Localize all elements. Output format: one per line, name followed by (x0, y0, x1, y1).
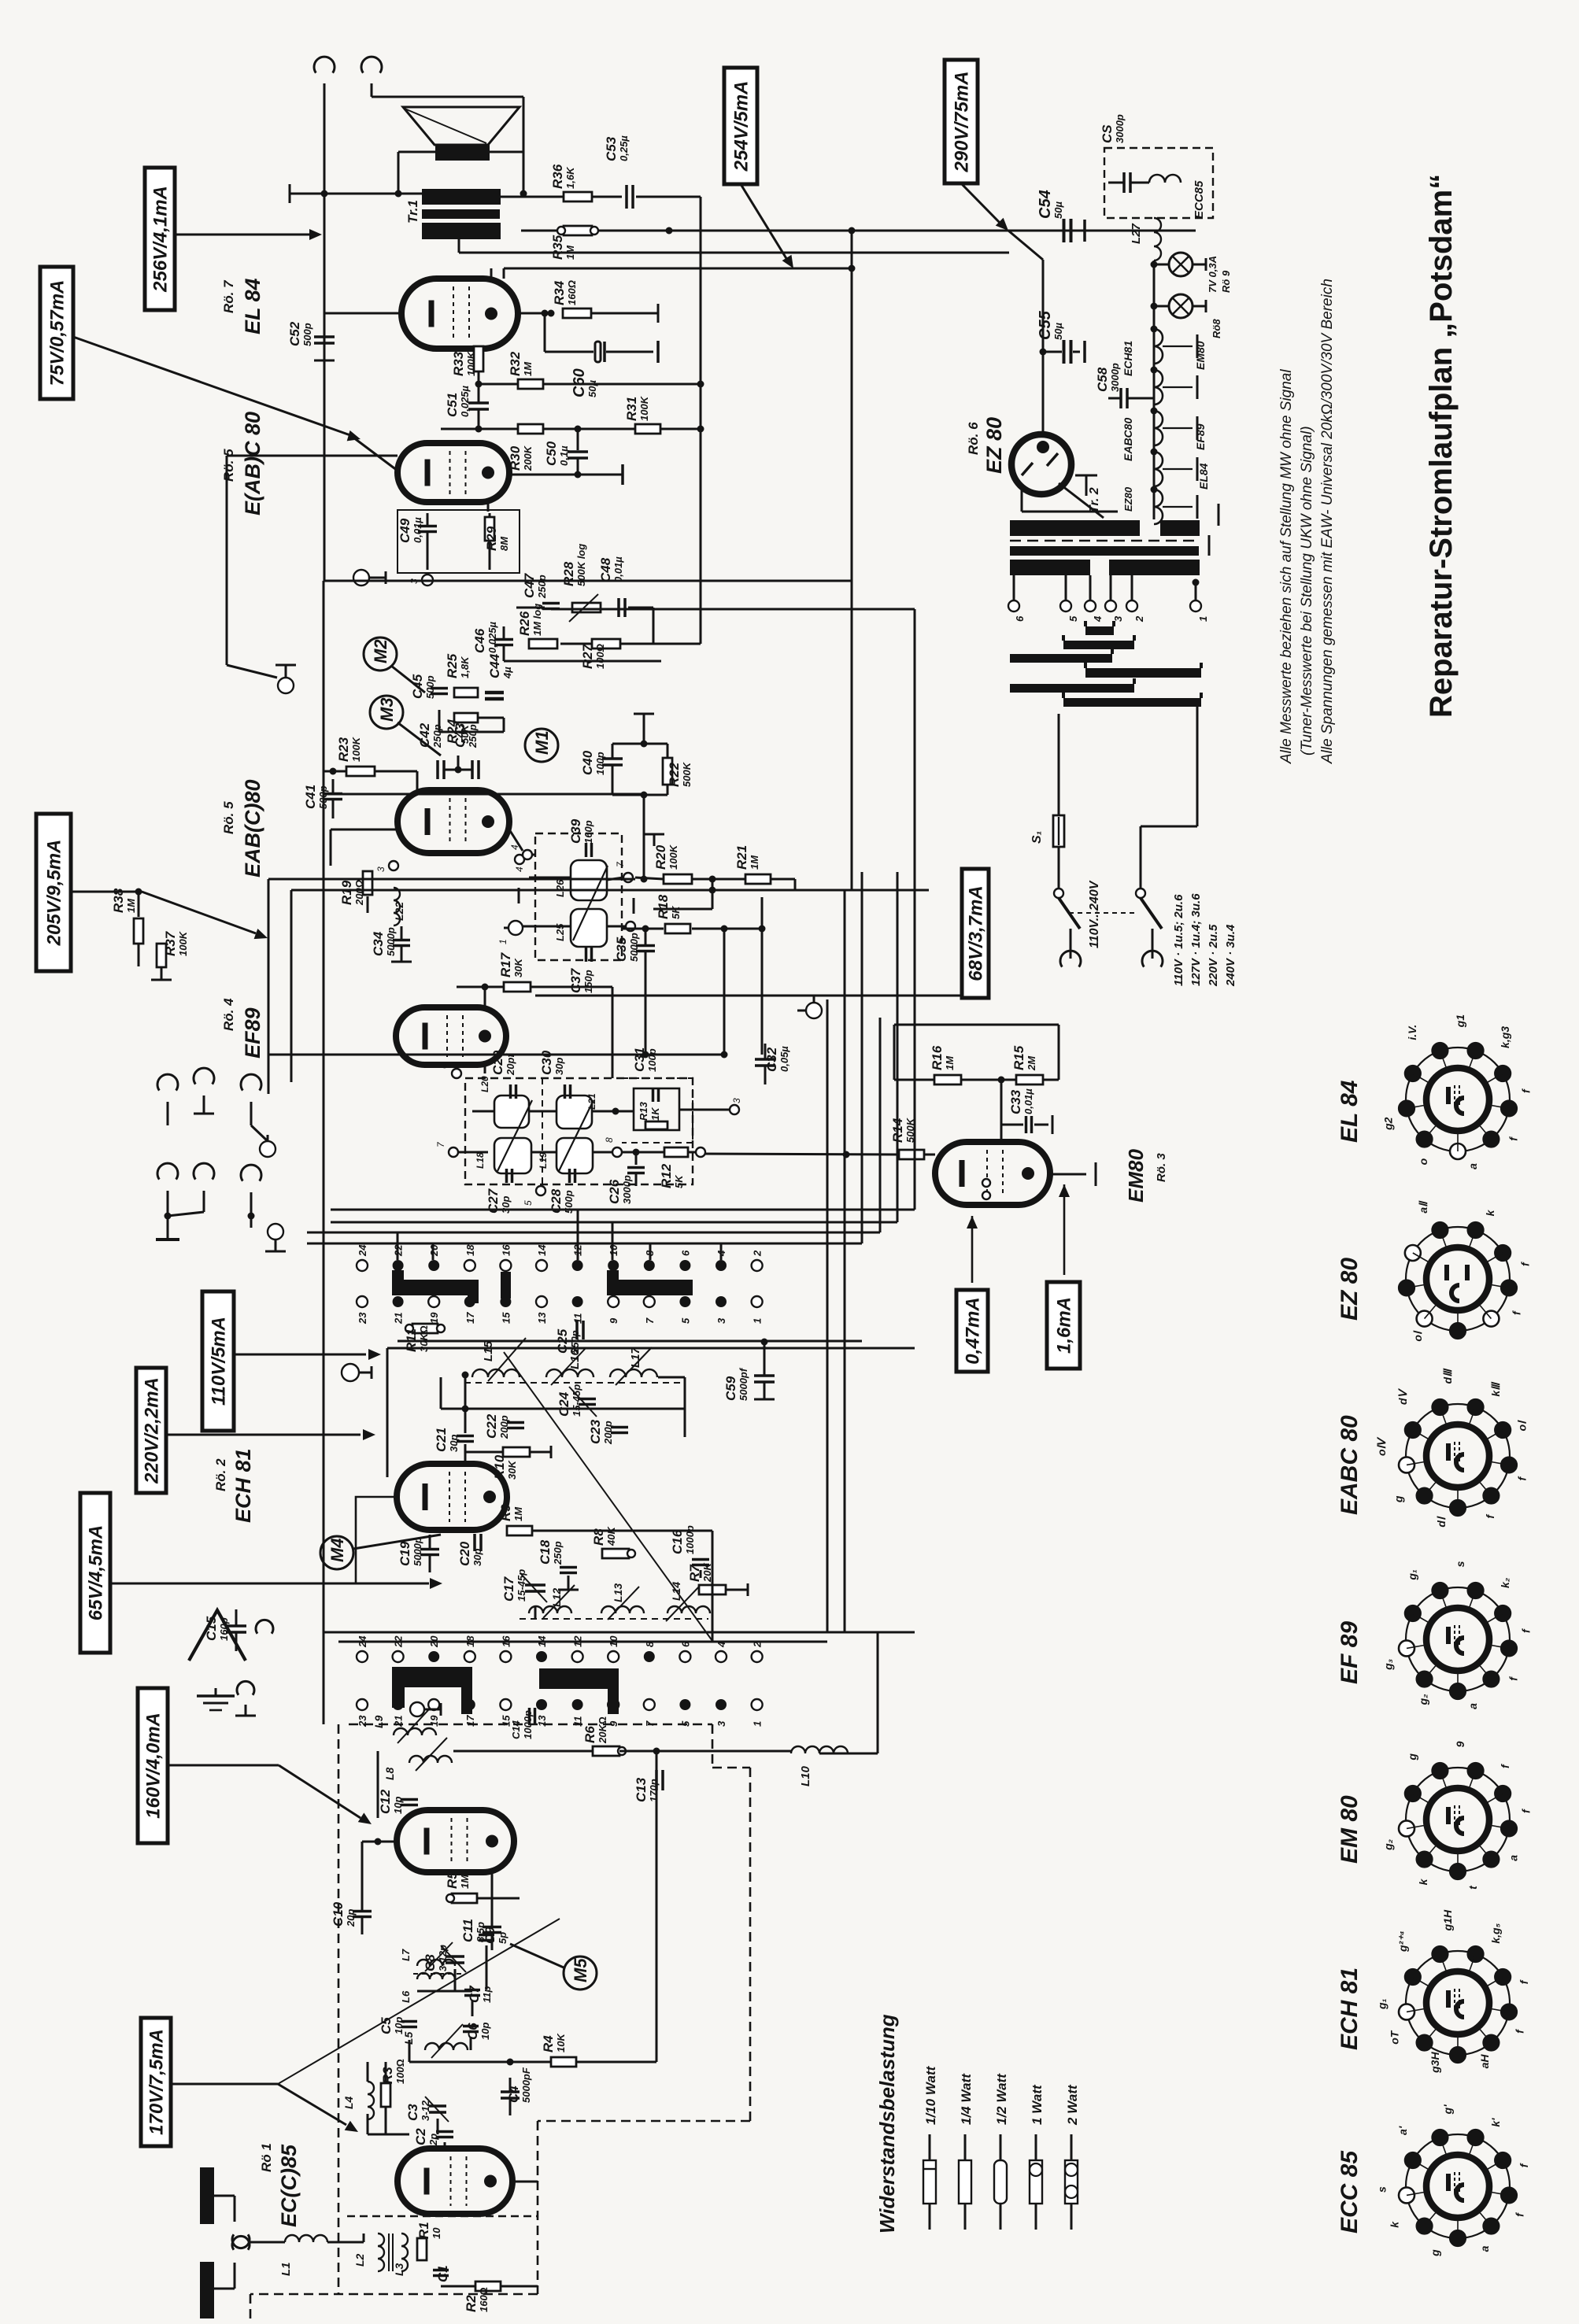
svg-text:1: 1 (1197, 616, 1209, 622)
resistor R2 (475, 2282, 501, 2291)
coil L8 (409, 1756, 452, 1763)
voltage box 170V (141, 2018, 171, 2146)
wire (490, 151, 523, 153)
capacitor C16 (692, 1558, 709, 1561)
svg-text:oⅠ: oⅠ (1515, 1420, 1528, 1432)
svg-text:1,6mA: 1,6mA (1054, 1297, 1075, 1354)
svg-text:20: 20 (428, 1244, 440, 1257)
svg-text:S₁: S₁ (1030, 831, 1044, 844)
winding bar (1063, 698, 1201, 707)
terminal circle (342, 1364, 359, 1381)
transformer Tr.2 primary bar (1010, 560, 1090, 575)
svg-text:C59: C59 (723, 1376, 738, 1401)
wire 254V arrow (741, 184, 787, 260)
svg-text:Rö. 7: Rö. 7 (221, 279, 236, 313)
svg-text:C16: C16 (670, 1529, 685, 1554)
terminal 7b (449, 1147, 458, 1157)
socket ECC85 (1406, 2134, 1510, 2238)
svg-text:C30: C30 (539, 1050, 554, 1075)
wire (484, 987, 486, 1007)
svg-text:24: 24 (357, 1244, 368, 1257)
svg-text:R35: R35 (550, 235, 565, 260)
measuring point M4 (320, 1536, 353, 1569)
wire (521, 230, 557, 232)
svg-text:C1: C1 (435, 2265, 450, 2282)
svg-text:oⅠ: oⅠ (1411, 1330, 1424, 1342)
resistor R38 (138, 892, 140, 917)
resistor R9 (507, 1526, 532, 1535)
svg-text:C5: C5 (379, 2017, 394, 2034)
terminal 8b (612, 1147, 622, 1157)
coil former L18 (494, 1138, 531, 1173)
svg-text:0,01µ: 0,01µ (412, 517, 423, 543)
svg-text:R36: R36 (550, 164, 565, 189)
svg-text:L3: L3 (393, 2263, 405, 2276)
coil L1 (285, 2235, 327, 2242)
svg-text:C29: C29 (490, 1050, 505, 1075)
wire long (453, 1750, 593, 1753)
T-bar right2 (1208, 535, 1211, 556)
wire bundle horiz (331, 1209, 915, 1211)
capacitor C17 (525, 1583, 545, 1587)
svg-text:ECC 85: ECC 85 (1337, 2150, 1363, 2233)
capacitor C33 (1001, 1124, 1023, 1126)
wire (712, 879, 714, 890)
svg-text:22: 22 (393, 1244, 405, 1257)
resistor R26 (529, 639, 557, 648)
svg-text:23: 23 (357, 1715, 368, 1727)
svg-text:C44: C44 (487, 653, 502, 678)
wire (501, 2285, 538, 2288)
svg-text:100K: 100K (667, 844, 679, 870)
wire box (356, 1497, 397, 1583)
wire (656, 1751, 658, 1774)
svg-text:L7: L7 (400, 1949, 412, 1961)
wire (472, 1110, 494, 1113)
capacitor C40 (602, 757, 623, 760)
svg-text:EM 80: EM 80 (1337, 1795, 1363, 1864)
socket EABC80 (1406, 1404, 1510, 1508)
fuse S1 (1053, 815, 1064, 847)
capacitor C8 (446, 1955, 464, 1958)
terminal 4 (523, 850, 532, 859)
svg-text:1/2 Watt: 1/2 Watt (994, 2073, 1009, 2125)
jack (194, 1163, 214, 1179)
wire 290V feed (1008, 231, 1043, 260)
svg-text:40K: 40K (605, 1526, 617, 1546)
svg-text:k₂: k₂ (1499, 1578, 1511, 1588)
svg-text:6: 6 (679, 1250, 691, 1256)
feedback loop wire (893, 1025, 896, 1080)
svg-text:R23: R23 (336, 737, 351, 762)
svg-text:Rö 9: Rö 9 (1220, 270, 1232, 293)
coil L5 (425, 2043, 468, 2050)
svg-text:R6: R6 (582, 1726, 597, 1743)
svg-text:M3: M3 (377, 697, 397, 722)
coil L10 (791, 1746, 848, 1753)
svg-text:100Ω: 100Ω (594, 644, 606, 669)
coil L6 (417, 1973, 455, 1979)
svg-text:1/10 Watt: 1/10 Watt (923, 2065, 938, 2125)
capacitor C19 (420, 1548, 439, 1551)
svg-text:C40: C40 (580, 750, 595, 775)
svg-text:250p: 250p (467, 724, 479, 748)
legend 1/10 Watt (929, 2134, 931, 2160)
svg-text:21: 21 (393, 1313, 405, 1325)
wire (523, 926, 571, 928)
tuning arrow (573, 866, 608, 940)
wire (712, 1531, 714, 1641)
svg-text:C10: C10 (331, 1901, 346, 1927)
tube EZ80 circle (1011, 434, 1071, 494)
svg-text:L19: L19 (538, 1152, 549, 1169)
svg-text:EM80: EM80 (1194, 341, 1207, 370)
dashed coil core (520, 1618, 708, 1620)
tube ECC85 rf half (397, 1810, 514, 1872)
transformer Tr.2 secondary bar (1010, 520, 1140, 536)
wire 75V arrow (73, 337, 350, 435)
winding bar (1063, 641, 1134, 649)
svg-text:g: g (1392, 1495, 1405, 1503)
voltage box 256V (145, 168, 175, 310)
svg-text:160V/4,0mA: 160V/4,0mA (143, 1713, 165, 1819)
wire mains left (1058, 714, 1060, 815)
voltage box 1,6mA (1047, 1282, 1080, 1369)
winding bar (1010, 684, 1134, 693)
wire (592, 196, 622, 198)
svg-text:R33: R33 (451, 351, 466, 376)
svg-text:EL 84: EL 84 (241, 278, 264, 334)
wire (458, 1151, 488, 1154)
R13 C31 box (634, 1088, 679, 1130)
svg-text:7: 7 (644, 1317, 656, 1324)
svg-text:3: 3 (731, 1098, 742, 1103)
legend 1 Watt (1035, 2134, 1037, 2160)
svg-text:6: 6 (1014, 615, 1026, 622)
wire bus 290V (459, 252, 1009, 254)
svg-text:290V/75mA: 290V/75mA (952, 71, 973, 172)
svg-text:10K: 10K (555, 2033, 567, 2052)
resistor R11 (412, 1324, 438, 1333)
svg-text:Rö 1: Rö 1 (259, 2143, 274, 2172)
wire (268, 879, 270, 1082)
svg-text:R27: R27 (580, 643, 595, 669)
jack (241, 1165, 261, 1180)
capacitor C45 (431, 687, 448, 690)
svg-text:500p: 500p (301, 323, 313, 346)
svg-text:L26: L26 (554, 879, 566, 897)
coil former L20 (494, 1095, 529, 1128)
svg-text:C60: C60 (571, 368, 588, 397)
svg-text:oT: oT (1389, 2030, 1401, 2045)
wire (416, 771, 419, 790)
wire (516, 607, 545, 609)
svg-text:1000p: 1000p (684, 1525, 696, 1554)
tube EABC80 demod (398, 790, 509, 853)
svg-text:EABC 80: EABC 80 (1337, 1415, 1363, 1515)
capacitor C28 (568, 1169, 571, 1183)
svg-text:g₁: g₁ (1406, 1569, 1418, 1581)
svg-text:k: k (1417, 1878, 1429, 1885)
svg-text:1,8K: 1,8K (459, 656, 471, 678)
wire bus B+ 254V (598, 230, 1196, 232)
svg-text:M4: M4 (327, 1538, 347, 1562)
svg-text:30p: 30p (553, 1058, 565, 1075)
wire bus (504, 268, 852, 270)
capacitor C35 (636, 944, 655, 948)
T-bar ends (1196, 334, 1199, 358)
coil L4 (368, 2082, 374, 2119)
svg-text:10p: 10p (479, 2023, 491, 2040)
capacitor C42 (436, 760, 439, 779)
capacitor C39 (585, 843, 588, 857)
svg-text:5000pF: 5000pF (520, 2067, 532, 2103)
svg-text:200Ω: 200Ω (353, 880, 365, 906)
capacitor C43 (471, 760, 474, 779)
resistor R12 (664, 1147, 688, 1157)
transformer Tr.1 secondary bar (422, 223, 501, 239)
terminal (515, 855, 524, 864)
terminal 6 (452, 1069, 461, 1078)
capacitor C2 (436, 2130, 453, 2134)
svg-text:1000p: 1000p (522, 1710, 534, 1739)
svg-text:205V/9,5mA: 205V/9,5mA (44, 840, 65, 947)
capacitor C11 (483, 1926, 501, 1929)
svg-text:C24: C24 (557, 1391, 571, 1417)
svg-text:0,25µ: 0,25µ (618, 135, 630, 161)
svg-text:0,025µ: 0,025µ (459, 385, 471, 417)
tube EF89 (396, 1007, 506, 1065)
svg-text:L17: L17 (629, 1347, 642, 1368)
svg-text:C34: C34 (371, 931, 386, 956)
capacitor C46 (494, 638, 513, 641)
svg-text:20KΩ: 20KΩ (597, 1716, 608, 1744)
svg-text:14: 14 (536, 1244, 548, 1256)
svg-text:100K: 100K (350, 736, 362, 762)
svg-text:1M: 1M (749, 855, 760, 870)
measuring point M1 (525, 729, 558, 762)
voltage box 68V (962, 869, 989, 998)
svg-text:L21: L21 (586, 1093, 597, 1110)
voltage box 65V (80, 1493, 110, 1653)
jack (157, 1163, 178, 1179)
svg-text:5000p: 5000p (628, 933, 640, 962)
svg-text:50µ: 50µ (586, 380, 598, 397)
svg-text:L6: L6 (400, 1990, 412, 2003)
svg-text:C14: C14 (510, 1720, 522, 1739)
band switch strip B contacts (357, 1651, 368, 1662)
capacitor C15 (226, 1624, 246, 1628)
coil L14 (667, 1606, 710, 1613)
wire 256V arrow (175, 234, 309, 236)
voltage box 75V (40, 267, 73, 399)
terminal wire (1195, 582, 1197, 600)
svg-text:Widerstandsbelastung: Widerstandsbelastung (875, 2014, 899, 2233)
wire (478, 346, 480, 349)
svg-text:k,g₅: k,g₅ (1489, 1923, 1502, 1943)
coil L15 (472, 1369, 520, 1377)
svg-text:Alle Messwerte beziehen sich a: Alle Messwerte beziehen sich auf Stellun… (1278, 369, 1295, 764)
measure arrow 0,47mA (971, 1216, 974, 1283)
svg-text:C26: C26 (607, 1179, 622, 1204)
dashed coil core (464, 1382, 685, 1384)
wire 205V arrow (71, 891, 142, 893)
svg-text:30p: 30p (471, 1549, 483, 1566)
socket EZ80 (1406, 1227, 1510, 1331)
coil L3 (401, 2233, 408, 2271)
ground stub (518, 888, 520, 903)
svg-text:1M: 1M (522, 361, 534, 376)
svg-text:C32: C32 (764, 1047, 779, 1072)
dial lamp 2 (1169, 294, 1193, 318)
wire (324, 83, 326, 194)
wire (544, 312, 546, 352)
wire (464, 1373, 467, 1433)
capacitor C1 (433, 2269, 449, 2272)
svg-text:20p: 20p (345, 1909, 357, 1927)
svg-text:100Ω: 100Ω (394, 2059, 406, 2084)
svg-text:Tr.1: Tr.1 (405, 200, 420, 224)
wire long (535, 995, 965, 997)
svg-text:g3H: g3H (1429, 2052, 1441, 2074)
wire (227, 455, 398, 457)
svg-text:C41: C41 (303, 785, 318, 809)
wire (291, 889, 712, 892)
wire (138, 944, 140, 952)
voltage box 290V (945, 60, 978, 183)
svg-text:i.V.: i.V. (1406, 1025, 1418, 1040)
svg-text:L12: L12 (550, 1588, 563, 1607)
svg-text:15: 15 (500, 1312, 512, 1324)
coil former L19 (557, 1138, 593, 1173)
svg-text:C45: C45 (410, 674, 425, 699)
svg-text:C37: C37 (568, 967, 583, 993)
svg-text:ECH 81: ECH 81 (231, 1448, 255, 1523)
wire (290, 890, 293, 1082)
wire (214, 2195, 235, 2197)
svg-text:Rö. 5: Rö. 5 (221, 801, 236, 834)
wire vertical x1082 (851, 231, 853, 890)
svg-text:256V/4,1mA: 256V/4,1mA (150, 186, 172, 293)
svg-text:L10: L10 (799, 1765, 812, 1786)
svg-text:g₁: g₁ (1375, 1998, 1388, 2010)
svg-text:Rö. 5: Rö. 5 (221, 449, 236, 482)
wire (367, 2062, 369, 2082)
wire (534, 1605, 537, 1619)
capacitor C41 (324, 793, 342, 796)
capacitor C54 (1063, 219, 1066, 242)
ground stub (633, 898, 635, 914)
capacitor C10 (353, 1910, 372, 1913)
svg-text:18: 18 (464, 1244, 476, 1256)
node junctions (321, 190, 328, 198)
svg-text:C54: C54 (1037, 190, 1054, 219)
svg-text:Rö. 3: Rö. 3 (1155, 1153, 1168, 1182)
svg-text:C22: C22 (484, 1413, 499, 1439)
svg-text:R21: R21 (734, 845, 749, 870)
svg-text:L14: L14 (670, 1582, 682, 1601)
svg-text:10p: 10p (393, 2017, 405, 2034)
terminal (389, 861, 398, 870)
svg-text:160Ω: 160Ω (478, 2287, 490, 2312)
wire (409, 2040, 411, 2062)
svg-text:R20: R20 (653, 844, 668, 870)
heater hump (1149, 175, 1181, 183)
svg-text:R4: R4 (541, 2035, 556, 2052)
svg-text:500p: 500p (424, 675, 436, 699)
mains prong (1070, 929, 1072, 959)
svg-text:3-12: 3-12 (420, 2100, 431, 2121)
coil former L21 (557, 1095, 592, 1129)
svg-text:Rö8: Rö8 (1211, 319, 1222, 338)
svg-text:o: o (1417, 1158, 1429, 1165)
svg-text:0,025µ: 0,025µ (486, 621, 498, 653)
winding bar (1085, 668, 1201, 678)
svg-text:C58: C58 (1095, 367, 1110, 392)
wire (487, 502, 490, 512)
capacitor CS (1122, 172, 1126, 193)
wire (377, 1751, 379, 1818)
svg-text:5: 5 (523, 1200, 534, 1206)
voltage box 0,47mA (956, 1290, 988, 1372)
svg-text:C20: C20 (457, 1541, 472, 1566)
resistor R24 (454, 713, 478, 722)
resistor R19 (363, 871, 372, 895)
wire long (323, 581, 325, 1724)
wire (250, 1216, 253, 1228)
svg-text:M1: M1 (532, 730, 552, 755)
band switch strip A contacts (357, 1260, 368, 1271)
svg-text:200p: 200p (498, 1415, 510, 1439)
svg-text:16: 16 (500, 1244, 512, 1256)
svg-text:R18: R18 (656, 894, 671, 919)
coil L2 (378, 2233, 384, 2271)
svg-text:C13: C13 (634, 1777, 649, 1802)
wire 65V (110, 1583, 429, 1585)
wire 220V arrow (166, 1434, 361, 1436)
core lines (388, 2233, 390, 2271)
capacitor C31 (652, 1088, 655, 1102)
wire row 545 (441, 428, 518, 430)
svg-text:250p: 250p (431, 724, 443, 748)
switch bar B2 (539, 1668, 619, 1689)
capacitor C25 (575, 1321, 579, 1339)
svg-text:2M: 2M (1026, 1055, 1037, 1071)
wire (324, 194, 326, 338)
svg-text:kⅢ: kⅢ (1489, 1381, 1502, 1397)
transformer Tr.1 core bar (422, 209, 500, 219)
svg-text:k: k (1484, 1209, 1496, 1216)
svg-text:23: 23 (357, 1312, 368, 1325)
resistor R17 (457, 986, 504, 988)
svg-text:L15: L15 (482, 1340, 495, 1362)
resistor R14 (701, 1154, 899, 1155)
svg-text:R9: R9 (498, 1504, 513, 1521)
dipole bar upper (200, 2167, 214, 2224)
wire 110V arrow (234, 1354, 366, 1356)
svg-text:L4: L4 (342, 2096, 355, 2109)
measuring point M2 (364, 637, 397, 671)
svg-text:1M: 1M (512, 1506, 524, 1521)
coil L7 (417, 1960, 455, 1966)
resistor R21 (712, 878, 745, 881)
svg-text:EL84: EL84 (1197, 463, 1210, 490)
svg-text:100p: 100p (646, 1048, 658, 1072)
svg-text:Rö. 4: Rö. 4 (221, 998, 236, 1031)
svg-text:L16: L16 (568, 1348, 582, 1369)
wire (386, 1348, 389, 1477)
svg-text:1: 1 (497, 939, 508, 944)
